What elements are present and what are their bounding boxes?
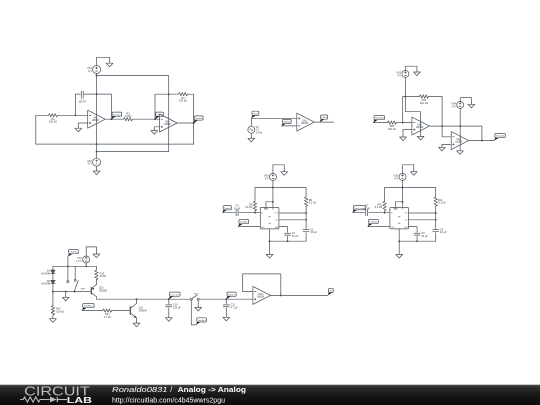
wire R1 input (36, 114, 49, 116)
sine source V2 (248, 126, 263, 134)
svg-text:LM358: LM358 (257, 296, 265, 298)
svg-text:9 V: 9 V (397, 74, 401, 77)
svg-text:VS: VS (272, 208, 274, 210)
wire input to R05 (373, 122, 387, 124)
net flag Vbuf at OA3 inverting (282, 119, 292, 126)
wire Q11 collector up (136, 299, 138, 303)
wire OA2 non-inverting to ground (154, 127, 159, 129)
svg-text:Ronaldo0831: Ronaldo0831 (112, 385, 168, 394)
svg-text:/: / (170, 385, 172, 394)
wire OA2 output (177, 122, 195, 124)
svg-text:9.1 kΩ: 9.1 kΩ (438, 202, 445, 205)
wire R8 to input (254, 211, 256, 213)
node V- rail junction (96, 151, 98, 153)
footer bar (0, 385, 540, 405)
svg-text:1 kHz: 1 kHz (256, 131, 263, 134)
node OA1 output (110, 118, 112, 120)
wire R1 to OA1 (58, 114, 88, 116)
node OA2 inverting input (154, 118, 156, 120)
svg-text:SW1: SW1 (81, 288, 87, 290)
wire base wire (53, 291, 91, 293)
wire C9 to bottom rail (399, 233, 436, 242)
wire input coupling (223, 212, 236, 214)
svg-text:Vampli: Vampli (375, 118, 384, 120)
capacitor C1 (81, 91, 83, 97)
wire VS2 to ground (96, 166, 98, 169)
wire diode column to R12 (52, 292, 54, 306)
wire C8 to bottom rail (416, 236, 418, 241)
wire box left top pin jog (266, 202, 273, 208)
node C10 junction (168, 298, 170, 300)
wire feedback bottom line A (36, 115, 194, 144)
wire VS3 top to ground (405, 66, 417, 70)
net flag Vin2 at OA2 input (155, 112, 164, 119)
net flag VmeBias at SW2 (196, 318, 207, 325)
ground at VS4 (468, 103, 475, 108)
wire rail right to R11 (435, 188, 437, 197)
wire VS1 to OA1 power line (96, 74, 98, 159)
wire V2 to OA3 non-inverting (251, 118, 296, 126)
wire C11 to ground (225, 308, 227, 316)
wire VS7 to rail (85, 263, 87, 266)
node OA1 inverting input (74, 114, 76, 116)
wire R13 to Q10 emitter (95, 280, 97, 285)
wire OA5 output (469, 140, 495, 142)
voltage source VS7 (76, 256, 90, 263)
node OA6 output junction (280, 294, 282, 296)
wire R06 feedback left (402, 97, 404, 123)
svg-text:Vout2: Vout2 (496, 135, 506, 138)
wire Q11 emitter to ground (136, 318, 138, 322)
wire D1 to D2 (52, 274, 54, 281)
ground below box (396, 254, 403, 258)
node line A and OA1 V- (96, 143, 98, 145)
ground below R12 (50, 317, 57, 322)
svg-text:10 kΩ: 10 kΩ (100, 275, 107, 278)
wire base ground stub (65, 292, 67, 296)
svg-text:Vpwr: Vpwr (228, 293, 236, 296)
wire box ground pin (398, 229, 400, 254)
capacitor C9 (433, 228, 447, 234)
node top pin jog junction (402, 201, 404, 203)
wire VS6 to box top pin (402, 180, 404, 207)
node OA4 inverting input (402, 122, 404, 124)
wire rail left to R10 (384, 188, 386, 202)
ground at OA5 input (439, 146, 446, 151)
node C8 bottom junction (416, 240, 418, 242)
wire OA4 non-inverting to ground (403, 130, 412, 136)
wire rail left to R8 (254, 188, 256, 202)
node C1 wire crossing OA1 V+ (96, 93, 98, 95)
ground at OA5 V- (457, 151, 464, 155)
ground below C11 (223, 316, 230, 321)
node top pin jog junction (272, 201, 274, 203)
capacitor C6 (285, 232, 299, 238)
node VS6 rail junction (402, 187, 404, 189)
svg-text:10 µF: 10 µF (363, 207, 370, 210)
node OA5 output junction (481, 140, 483, 142)
node R06 crossing OA4 output (441, 125, 443, 127)
svg-text:200 kΩ: 200 kΩ (388, 128, 396, 131)
wire box output pin 1 (279, 212, 306, 214)
svg-text:100 kΩ: 100 kΩ (179, 100, 187, 103)
transistor Q11 2N3904 (130, 303, 147, 318)
svg-text:10 µF: 10 µF (234, 207, 241, 210)
wire R12 to ground (52, 315, 54, 317)
svg-text:http://circuitlab.com/c4b45wwr: http://circuitlab.com/c4b45wwrs2pgu (112, 395, 225, 404)
amplifier box U1 (260, 208, 279, 230)
svg-text:Q10: Q10 (99, 288, 104, 290)
wire R14 to Q11 base (112, 310, 131, 312)
wire C11 stub (225, 299, 227, 304)
svg-text:VS: VS (402, 208, 404, 210)
svg-text:IN: IN (391, 213, 393, 215)
ground at Q11 emitter (133, 322, 140, 327)
svg-text:VmeBias: VmeBias (369, 222, 378, 224)
resistor R11 (434, 197, 446, 206)
net flag VmeBias at bias pin (368, 220, 379, 227)
wire D2 to base node (52, 284, 54, 292)
wire C1 feedback right (84, 94, 111, 119)
svg-text:2N3904: 2N3904 (139, 310, 148, 312)
svg-text:OFS: OFS (261, 227, 264, 229)
svg-text:Q11: Q11 (139, 308, 144, 310)
op-amp OA4 (412, 117, 430, 135)
resistor R2 (124, 112, 133, 121)
wire rail to R13 (95, 266, 97, 270)
net flag Vin at V2 (251, 111, 259, 118)
net flag Vo at OA6 output (328, 288, 334, 295)
net flag Vpwr at C11 (226, 292, 236, 299)
label C1 (78, 98, 86, 104)
wire VS4 top to ground (460, 98, 471, 103)
resistor R05 (388, 121, 397, 131)
ground below C10 (165, 316, 172, 321)
svg-text:10 µF: 10 µF (440, 231, 447, 234)
voltage source VS4 (451, 101, 464, 108)
svg-text:4.7 µF: 4.7 µF (231, 306, 239, 309)
wire OA6 feedback (243, 274, 281, 296)
wire C7 to box (369, 212, 390, 214)
wire bias rail (53, 265, 97, 267)
net flag Vpre at input (223, 206, 232, 213)
node diode column base junction (52, 291, 54, 293)
svg-text:VmeBias: VmeBias (198, 320, 207, 322)
wire R06 feedback right (428, 97, 451, 137)
switch SW2 contact b (197, 298, 199, 300)
ground at VS3 (414, 71, 421, 76)
wire V- rail to OA2 (97, 151, 169, 153)
node VS4 line crossing OA4 output (459, 125, 461, 127)
wire R3 feedback right (188, 94, 194, 144)
svg-text:10 µF: 10 µF (421, 235, 428, 238)
ground at SW2 (195, 306, 202, 311)
op-amp OA2 (160, 114, 178, 132)
node C6 bottom junction (287, 240, 289, 242)
wire C6 to bottom rail (287, 236, 289, 241)
node ground pin junction (398, 240, 400, 242)
transistor Q10 2N3906 (91, 285, 107, 297)
wire box output pin 1 (409, 212, 436, 214)
wire R3 feedback left (155, 94, 179, 119)
node VS7 rail junction (85, 265, 87, 267)
svg-text:OU+: OU+ (404, 213, 407, 215)
ground at OA4 V- (417, 136, 424, 140)
svg-text:Analog -> Analog: Analog -> Analog (178, 385, 246, 394)
svg-text:OFS: OFS (391, 227, 394, 229)
svg-text:Vampli: Vampli (113, 114, 121, 116)
ground at VS6 (410, 170, 417, 175)
node OA2 V+ crossing R3 wire (168, 93, 170, 95)
switch SW1 contact b (74, 279, 76, 281)
wire rail to switch contact b (74, 266, 76, 279)
net flag Vout_amp at input (353, 206, 366, 213)
op-amp OA5 (451, 132, 469, 150)
wire VS3 to OA4 power line (405, 77, 420, 136)
wire VS5 to box top pin (272, 180, 274, 207)
resistor R14 (103, 309, 112, 319)
wire SW2 right to ground (197, 300, 199, 306)
svg-text:VmeBias: VmeBias (70, 252, 79, 254)
node output pin 1 junction (305, 212, 307, 214)
node ground pin junction (269, 240, 271, 242)
node flag wire rail crossing (67, 265, 69, 267)
ground at OA2 input (151, 129, 158, 134)
svg-text:Vout1: Vout1 (195, 117, 203, 120)
wire input coupling (353, 212, 365, 214)
wire box pin to C6 (279, 227, 288, 233)
wire R05 to OA4 (397, 122, 412, 124)
wire V+ rail to OA2 power line (97, 76, 169, 152)
wire VS4 to OA5 power line (459, 108, 461, 150)
svg-text:LM358: LM358 (92, 120, 100, 122)
svg-text:VmeBias: VmeBias (240, 222, 249, 224)
svg-text:LAB: LAB (67, 395, 92, 405)
svg-text:1.5 V: 1.5 V (76, 260, 82, 263)
wire supply rail VS6 (385, 187, 436, 189)
voltage source VS2 (87, 158, 101, 166)
ground below box (266, 254, 273, 258)
ground at VS7 (93, 253, 100, 258)
wire R10 to input (384, 211, 386, 213)
resistor R13 (95, 270, 107, 279)
svg-text:LM358: LM358 (416, 127, 424, 129)
node V+ rail junction (96, 75, 98, 77)
op-amp OA6 (253, 286, 271, 304)
wire OA5 non-inverting to ground (442, 144, 451, 146)
net flag VmeBias at R14 (82, 304, 94, 311)
svg-text:OU+: OU+ (275, 213, 278, 215)
node R10 input junction (384, 212, 386, 214)
node output pin 2 junction (305, 219, 307, 221)
capacitor C7 (363, 205, 370, 216)
CircuitLab logo (20, 385, 92, 405)
svg-text:100 kΩ: 100 kΩ (49, 121, 57, 124)
svg-text:4.7 kΩ: 4.7 kΩ (104, 316, 111, 319)
resistor R8 (245, 201, 257, 210)
resistor R9 (304, 197, 316, 206)
wire box output pin 2 (279, 219, 306, 221)
wire OA4 output to OA5 (429, 126, 482, 141)
wire supply rail VS5 (255, 187, 306, 189)
svg-text:LM358: LM358 (164, 124, 172, 126)
net flag VmeBias top left (68, 250, 78, 257)
svg-text:Vbuf: Vbuf (283, 122, 291, 124)
resistor R10 (375, 201, 387, 210)
ground at V2 (248, 137, 255, 142)
svg-text:100 µF: 100 µF (173, 306, 181, 309)
node Q11 collector junction (136, 298, 138, 300)
wire SW2 to OA6 (199, 298, 253, 300)
voltage source VS5 (264, 173, 277, 180)
switch SW1 lever (75, 281, 87, 291)
net flag Vampli at block3 input (373, 116, 384, 123)
wire main signal line (96, 298, 190, 300)
wire R06 feedback top (403, 96, 420, 98)
wire C10 stub (168, 299, 170, 304)
ground at OA1 input (75, 127, 82, 132)
resistor R12 (51, 306, 64, 315)
wire bias pin (238, 226, 260, 228)
svg-text:9.1 kΩ: 9.1 kΩ (309, 202, 316, 205)
svg-text:2N3906: 2N3906 (99, 290, 108, 292)
footer text (112, 385, 246, 405)
wire OA1 non-inverting to ground (78, 123, 87, 127)
svg-text:SEN: SEN (275, 227, 278, 229)
svg-text:200 kΩ: 200 kΩ (420, 102, 428, 105)
ground at VS1 (106, 62, 113, 67)
node OA2 output (193, 122, 195, 124)
op-amp OA1 (88, 110, 106, 128)
node output pin 2 junction (435, 219, 437, 221)
ground at OA4 input (400, 136, 407, 141)
wire R11 down right branch (435, 206, 437, 228)
node VS3 line crossing R06 wire (404, 96, 406, 98)
amplifier box U2 (390, 208, 409, 230)
wire C5 to bottom rail (270, 233, 307, 242)
switch SW2 contact a (190, 298, 192, 300)
wire flag to R14 (82, 310, 103, 312)
wire OA3 output (314, 121, 333, 123)
node C11 junction (225, 298, 227, 300)
wire box output pin 2 (409, 219, 436, 221)
voltage source VS1 (87, 66, 101, 74)
voltage source VS6 (393, 173, 406, 180)
capacitor C8 (414, 232, 428, 238)
svg-text:Vpre: Vpre (224, 207, 231, 210)
capacitor C5 (303, 228, 317, 234)
wire VS1 top to ground (97, 57, 110, 65)
wire SW1 common to base wire (74, 290, 76, 291)
capacitor C10 (166, 304, 182, 310)
net flag Vout_pre at C10 (169, 292, 180, 299)
node base ground junction (65, 291, 67, 293)
svg-text:9.1 kΩ: 9.1 kΩ (245, 206, 252, 209)
svg-text:100 nF: 100 nF (78, 100, 86, 103)
svg-text:SW2: SW2 (194, 293, 200, 295)
svg-text:10 µF: 10 µF (310, 231, 317, 234)
wire rail right to R9 (305, 188, 307, 197)
svg-text:100 kΩ: 100 kΩ (56, 310, 64, 313)
ground at VS2 (93, 170, 100, 175)
svg-text:SEN: SEN (405, 227, 408, 229)
svg-text:LM358: LM358 (455, 142, 463, 144)
svg-text:VDD: VDD (264, 209, 269, 211)
wire R2 to OA2 inverting (133, 118, 160, 120)
wire C4 to box (239, 212, 260, 214)
net flag Vout1 at OA2 output (194, 116, 204, 123)
svg-text:-9 V: -9 V (87, 163, 92, 166)
resistor R1 (49, 114, 58, 124)
svg-text:VDD: VDD (394, 209, 399, 211)
svg-text:IN: IN (261, 213, 263, 215)
wire box ground pin (269, 229, 271, 254)
svg-text:10 kΩ: 10 kΩ (125, 115, 132, 118)
svg-text:LM358: LM358 (301, 123, 309, 125)
wire OA3 inverting stub (282, 125, 297, 127)
svg-text:10 µF: 10 µF (292, 235, 299, 238)
wire VS5 top to ground (273, 165, 284, 174)
wire box pin to C8 (409, 227, 418, 233)
wire SW2 left tap down (191, 300, 196, 325)
svg-text:9 V: 9 V (88, 70, 92, 73)
wire C1 feedback left (75, 94, 80, 115)
net flag Vbuf at OA3 output (320, 115, 328, 122)
net flag Vampli at OA1 output (111, 112, 121, 119)
node SW1 base junction (74, 291, 76, 293)
switch SW2 lever (192, 293, 199, 298)
wire OA6 output (270, 294, 327, 296)
svg-text:Vbuf: Vbuf (321, 117, 327, 119)
svg-text:Vout_pre: Vout_pre (170, 293, 180, 296)
ground at VS5 (281, 170, 288, 175)
svg-text:9 V: 9 V (265, 177, 269, 180)
net flag Vout2 at OA5 output (494, 134, 505, 141)
diode D2 (41, 280, 55, 286)
capacitor C11 (223, 304, 238, 310)
node output pin 1 junction (435, 212, 437, 214)
svg-text:9.1 kΩ: 9.1 kΩ (375, 206, 382, 209)
diode D1 (41, 270, 55, 276)
switch SW1 contact a (67, 281, 69, 283)
svg-text:OU-: OU- (405, 220, 408, 222)
resistor R3 (179, 93, 188, 103)
wire V2 to ground (250, 133, 252, 137)
op-amp OA3 (297, 113, 315, 131)
svg-text:VmeBias: VmeBias (84, 306, 95, 308)
voltage source VS3 (396, 70, 409, 77)
wire OA1 output (105, 118, 123, 120)
wire C10 to ground (168, 308, 170, 317)
wire Q10 collector down (95, 297, 97, 300)
wire diode column top (52, 266, 54, 270)
svg-text:9 V: 9 V (394, 177, 398, 180)
wire flag to switch contact (67, 257, 69, 281)
wire bias pin (368, 226, 390, 228)
wire box left top pin jog (396, 202, 403, 208)
net flag VmeBias at bias pin (238, 220, 249, 227)
wire VS7 top to ground (86, 247, 96, 256)
node VS5 rail junction (272, 187, 274, 189)
ground on base wire (62, 296, 69, 301)
svg-text:OU-: OU- (275, 220, 278, 222)
wire R9 down right branch (305, 206, 307, 228)
node R8 input junction (254, 212, 256, 214)
resistor R06 (419, 95, 428, 105)
capacitor C4 (234, 205, 241, 216)
svg-text:1N4148: 1N4148 (41, 273, 50, 276)
svg-text:9 V: 9 V (452, 105, 456, 108)
